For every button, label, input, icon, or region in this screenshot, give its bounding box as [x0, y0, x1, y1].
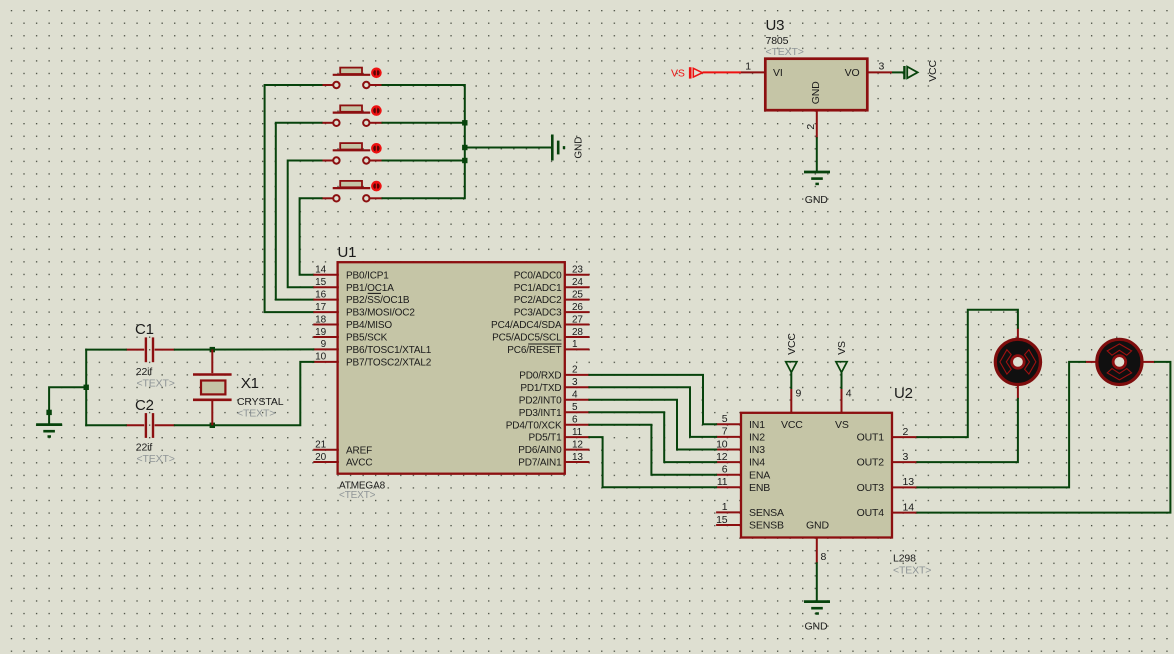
value L298	[893, 553, 916, 565]
svg-text:PD3/INT1: PD3/INT1	[519, 408, 562, 419]
U1 pin 13 PD7/AIN1	[518, 452, 589, 469]
svg-text:11: 11	[572, 427, 583, 438]
svg-text:PC3/ADC3: PC3/ADC3	[514, 308, 562, 319]
push button 2	[322, 105, 383, 126]
label C1	[135, 321, 154, 338]
U2 pin 10 IN3	[716, 438, 765, 456]
wire U2 OUT4 to motor M2 right	[917, 362, 1170, 513]
svg-text:PB7/TOSC2/XTAL2: PB7/TOSC2/XTAL2	[346, 358, 432, 369]
wire U1 pin 5 to U2 IN4	[589, 412, 716, 462]
svg-text:PB0/ICP1: PB0/ICP1	[346, 270, 389, 281]
power terminal VCC (U2 pin 9)	[786, 333, 802, 413]
svg-text:4: 4	[846, 388, 852, 400]
svg-text:IN1: IN1	[749, 419, 765, 431]
wire C2 row to U1 pin 10	[86, 362, 313, 425]
svg-text:PB2/SS/OC1B: PB2/SS/OC1B	[346, 295, 410, 306]
value 7805	[766, 35, 789, 47]
wire to left ground	[49, 387, 86, 423]
ground (buttons)	[552, 135, 584, 161]
capacitor C2	[126, 413, 175, 438]
svg-text:2: 2	[572, 365, 578, 376]
svg-text:28: 28	[572, 327, 583, 338]
wire U1 pin 2 to U2 IN1	[589, 375, 716, 424]
svg-text:7: 7	[722, 426, 728, 438]
value ATMEGA8	[339, 481, 386, 492]
U1 pin 3 PD1/TXD	[520, 377, 589, 394]
svg-text:10: 10	[315, 352, 326, 363]
microcontroller U1 body	[338, 262, 565, 474]
U1 pin 4 PD2/INT0	[519, 390, 590, 407]
svg-text:PD2/INT0: PD2/INT0	[519, 395, 562, 406]
svg-text:21: 21	[315, 440, 326, 451]
svg-text:23: 23	[572, 265, 583, 276]
wire button 2 to U1 pin 16	[276, 123, 322, 300]
ground (U3)	[804, 172, 830, 206]
svg-text:13: 13	[572, 452, 583, 463]
svg-text:3: 3	[903, 451, 909, 463]
svg-text:OUT4: OUT4	[857, 507, 885, 519]
value CRYSTAL	[237, 396, 284, 408]
text U1 <TEXT>	[339, 490, 376, 501]
svg-text:PB6/TOSC1/XTAL1: PB6/TOSC1/XTAL1	[346, 345, 432, 356]
overline RESET	[528, 343, 561, 345]
svg-text:U3: U3	[766, 17, 785, 34]
U1 pin 28 PC5/ADC5/SCL	[492, 327, 589, 344]
U1 pin 19 PB5/SCK	[313, 327, 387, 344]
U2 pin 8 GND	[817, 538, 827, 564]
svg-text:IN3: IN3	[749, 444, 765, 456]
svg-text:SENSB: SENSB	[749, 520, 784, 532]
wire U1 pin 11 to U2 ENB	[589, 437, 716, 487]
svg-text:PC5/ADC5/SCL: PC5/ADC5/SCL	[492, 333, 562, 344]
svg-text:PD5/T1: PD5/T1	[528, 433, 562, 444]
text U3 <TEXT>	[766, 46, 804, 58]
wire button 1 to U1 pin 17	[265, 85, 322, 312]
svg-text:16: 16	[315, 289, 326, 300]
junction bus-button2	[462, 120, 467, 125]
wire U2 OUT3 to motor M2 left	[917, 362, 1085, 488]
junction bus-gnd	[462, 145, 467, 150]
svg-text:OUT3: OUT3	[857, 482, 885, 494]
wire U1 pin 4 to U2 IN3	[589, 400, 716, 450]
junction left ground stem	[46, 410, 51, 415]
U2 pin 15 SENSB	[716, 514, 784, 532]
svg-text:IN2: IN2	[749, 432, 765, 444]
svg-text:15: 15	[716, 514, 728, 526]
label U1	[338, 244, 357, 261]
U1 pin 20 AVCC	[313, 452, 372, 469]
U2 pin 6 ENA	[716, 464, 770, 482]
push button 3	[322, 143, 383, 164]
overline SS	[368, 292, 381, 294]
wire U1 pin 3 to U2 IN2	[589, 387, 716, 437]
U1 pin 23 PC0/ADC0	[514, 265, 590, 282]
U2 GND label	[806, 519, 829, 531]
svg-text:PB1/OC1A: PB1/OC1A	[346, 283, 394, 294]
U1 pin 12 PD6/AIN0	[518, 439, 589, 456]
wire C1 row to U1 pin 9	[86, 348, 313, 350]
regulator U3 body	[765, 59, 867, 110]
svg-text:VS: VS	[835, 419, 849, 431]
svg-text:VO: VO	[845, 67, 860, 79]
svg-text:6: 6	[572, 415, 578, 426]
U1 pin 25 PC2/ADC2	[514, 289, 590, 306]
svg-text:<TEXT>: <TEXT>	[766, 46, 804, 58]
U1 pin 17 PB3/MOSI/OC2	[313, 302, 415, 319]
svg-text:6: 6	[722, 464, 728, 476]
svg-text:1: 1	[745, 61, 751, 73]
svg-text:AREF: AREF	[346, 445, 372, 456]
svg-text:IN4: IN4	[749, 457, 765, 469]
wire U1 pin 6 to U2 ENA	[589, 425, 716, 475]
wire U2 to ground	[816, 563, 818, 600]
svg-text:12: 12	[716, 451, 728, 463]
label U2	[894, 385, 913, 402]
svg-text:U2: U2	[894, 385, 913, 402]
U1 pin 27 PC4/ADC4/SDA	[491, 314, 589, 331]
svg-text:26: 26	[572, 302, 583, 313]
svg-text:1: 1	[722, 501, 728, 513]
wire button 3 to bus	[383, 160, 465, 162]
U2 VCC label	[781, 419, 803, 431]
svg-text:PC0/ADC0: PC0/ADC0	[514, 270, 562, 281]
wire bus to ground symbol	[465, 147, 552, 149]
U2 pin 5 IN1	[716, 413, 765, 431]
wire U2 OUT2 to motor M1 bottom	[917, 399, 1018, 462]
svg-text:U1: U1	[338, 244, 357, 261]
svg-text:18: 18	[315, 314, 326, 325]
svg-text:L298: L298	[893, 553, 916, 565]
svg-text:15: 15	[315, 277, 326, 288]
U1 pin 14 PB0/ICP1	[313, 265, 389, 282]
svg-text:PD6/AIN0: PD6/AIN0	[518, 445, 562, 456]
push button 4	[322, 181, 383, 202]
svg-text:PB4/MISO: PB4/MISO	[346, 320, 392, 331]
svg-text:PD1/TXD: PD1/TXD	[520, 383, 561, 394]
svg-text:GND: GND	[805, 194, 828, 206]
wire button 2 to bus	[383, 122, 465, 124]
svg-text:4: 4	[572, 390, 578, 401]
svg-text:PD0/RXD: PD0/RXD	[519, 371, 561, 382]
U1 pin 2 PD0/RXD	[519, 365, 589, 382]
U1 pin 26 PC3/ADC3	[514, 302, 590, 319]
svg-text:PB5/SCK: PB5/SCK	[346, 333, 388, 344]
text C1 <TEXT>	[137, 377, 175, 389]
U2 pin 13 OUT3	[857, 476, 918, 494]
power terminal VS (U2 pin 4)	[836, 341, 852, 413]
svg-text:2: 2	[903, 426, 909, 438]
value C1 22if	[136, 366, 153, 378]
wire button 3 to U1 pin 15	[288, 161, 322, 288]
power terminal VS	[671, 67, 741, 79]
U1 pin 21 AREF	[313, 440, 372, 457]
U2 pin 1 SENSA	[716, 501, 784, 519]
svg-text:C2: C2	[135, 397, 154, 414]
svg-text:PB3/MOSI/OC2: PB3/MOSI/OC2	[346, 308, 415, 319]
wire U2 OUT1 to motor M1 top	[917, 310, 1018, 437]
U2 pin 14 OUT4	[857, 501, 918, 519]
U1 pin 16 PB2/SS/OC1B	[313, 289, 410, 306]
junction left ground tee	[84, 385, 89, 390]
U1 pin 15 PB1/OC1A	[313, 277, 394, 294]
svg-text:27: 27	[572, 314, 583, 325]
text C2 <TEXT>	[137, 453, 175, 465]
junction crystal top	[210, 347, 215, 352]
svg-text:PC1/ADC1: PC1/ADC1	[514, 283, 562, 294]
U1 pin 24 PC1/ADC1	[514, 277, 590, 294]
svg-text:2: 2	[805, 124, 817, 130]
push button 1	[322, 68, 383, 89]
svg-text:VS: VS	[836, 341, 848, 355]
U2 pin 2 OUT1	[857, 426, 918, 444]
U3 pin 2 GND	[805, 110, 817, 138]
svg-text:13: 13	[903, 476, 915, 488]
svg-text:GND: GND	[574, 137, 585, 159]
svg-text:14: 14	[903, 501, 915, 513]
text X1 <TEXT>	[237, 407, 275, 419]
svg-text:VCC: VCC	[927, 60, 939, 82]
U2 VS label	[835, 419, 849, 431]
U1 pin 5 PD3/INT1	[519, 402, 590, 419]
U1 pin 6 PD4/T0/XCK	[506, 415, 590, 432]
svg-text:<TEXT>: <TEXT>	[893, 565, 931, 577]
svg-text:10: 10	[716, 438, 728, 450]
U1 pin 1 PC6/RESET	[507, 339, 589, 356]
svg-text:22if: 22if	[136, 441, 153, 453]
svg-text:VCC: VCC	[781, 419, 803, 431]
U1 pin 10 PB7/TOSC2/XTAL2	[313, 352, 431, 369]
capacitor C1	[126, 337, 175, 362]
svg-text:OUT1: OUT1	[857, 432, 885, 444]
wire C1 to C2 left	[85, 350, 87, 426]
power terminal VCC	[892, 60, 939, 82]
ground (left)	[36, 425, 62, 437]
svg-text:9: 9	[796, 388, 802, 400]
ground (U2)	[804, 602, 830, 633]
U2 pin 11 ENB	[716, 476, 770, 494]
value C2 22if	[136, 441, 153, 453]
wire U3 to ground	[816, 138, 818, 170]
svg-text:ENA: ENA	[749, 469, 770, 481]
svg-text:<TEXT>: <TEXT>	[339, 490, 376, 501]
svg-text:VS: VS	[671, 68, 685, 80]
U1 pin 18 PB4/MISO	[313, 314, 392, 331]
svg-text:GND: GND	[810, 81, 822, 104]
svg-text:19: 19	[315, 327, 326, 338]
U3 GND label	[810, 81, 822, 104]
svg-text:CRYSTAL: CRYSTAL	[237, 396, 284, 408]
svg-text:5: 5	[572, 402, 578, 413]
svg-text:25: 25	[572, 289, 583, 300]
U3 pin 1 VI	[741, 61, 783, 79]
U1 pin 9 PB6/TOSC1/XTAL1	[313, 339, 431, 356]
svg-text:3: 3	[879, 61, 885, 73]
svg-text:3: 3	[572, 377, 578, 388]
svg-text:8: 8	[821, 551, 827, 563]
svg-text:14: 14	[315, 265, 326, 276]
svg-text:11: 11	[717, 476, 728, 488]
svg-text:VI: VI	[773, 67, 783, 79]
svg-text:AVCC: AVCC	[346, 458, 372, 469]
motor M2	[1085, 339, 1155, 384]
svg-text:VCC: VCC	[786, 333, 798, 355]
junction bus-button3	[462, 158, 467, 163]
motor driver U2 body	[741, 413, 892, 538]
svg-text:<TEXT>: <TEXT>	[237, 407, 275, 419]
svg-text:ENB: ENB	[749, 482, 770, 494]
svg-text:PD7/AIN1: PD7/AIN1	[518, 458, 562, 469]
svg-text:PD4/T0/XCK: PD4/T0/XCK	[506, 420, 562, 431]
junction crystal bottom	[210, 423, 215, 428]
wire button 4 to U1 pin 14	[300, 198, 322, 274]
svg-text:SENSA: SENSA	[749, 507, 784, 519]
U3 pin 3 VO	[845, 61, 892, 79]
svg-text:C1: C1	[135, 321, 154, 338]
svg-text:<TEXT>: <TEXT>	[137, 377, 175, 389]
U2 pin 3 OUT2	[857, 451, 918, 469]
svg-text:PC2/ADC2: PC2/ADC2	[514, 295, 562, 306]
U1 pin 11 PD5/T1	[528, 427, 589, 444]
label U3	[766, 17, 785, 34]
svg-text:GND: GND	[805, 621, 828, 633]
svg-text:17: 17	[315, 302, 326, 313]
motor M1	[995, 328, 1040, 399]
text U2 <TEXT>	[893, 565, 931, 577]
U2 pin 7 IN2	[716, 426, 765, 444]
svg-text:12: 12	[572, 439, 583, 450]
svg-text:GND: GND	[806, 519, 829, 531]
label C2	[135, 397, 154, 414]
svg-text:1: 1	[572, 339, 578, 350]
svg-text:9: 9	[321, 339, 327, 350]
svg-text:20: 20	[315, 452, 326, 463]
svg-text:<TEXT>: <TEXT>	[137, 453, 175, 465]
svg-text:5: 5	[722, 413, 728, 425]
svg-text:24: 24	[572, 277, 583, 288]
svg-text:PC6/RESET: PC6/RESET	[507, 345, 561, 356]
svg-text:OUT2: OUT2	[857, 457, 885, 469]
svg-text:22if: 22if	[136, 366, 153, 378]
wire button bus to ground	[383, 85, 465, 198]
crystal X1	[193, 350, 232, 426]
svg-text:X1: X1	[241, 375, 259, 392]
U2 pin 12 IN4	[716, 451, 765, 469]
label X1	[241, 375, 259, 392]
svg-text:PC4/ADC4/SDA: PC4/ADC4/SDA	[491, 320, 562, 331]
